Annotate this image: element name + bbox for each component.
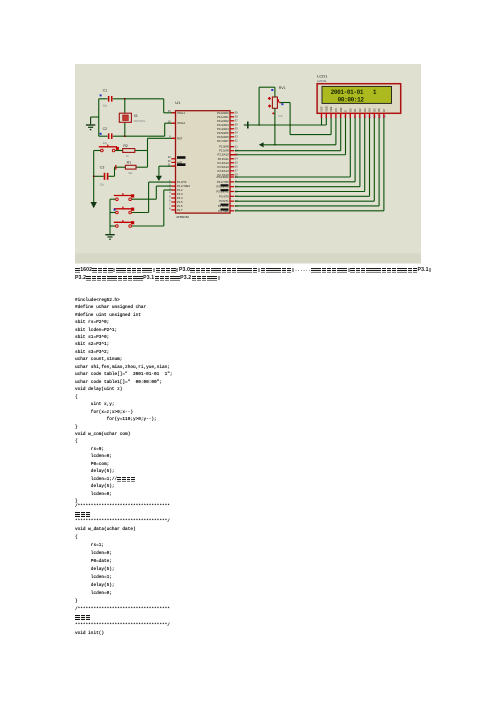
svg-text:D7: D7 xyxy=(382,108,386,112)
paragraph describing the clock, line 1 xyxy=(75,268,432,274)
U1 pin 3 P1.2 xyxy=(169,186,183,192)
comment 写数据 (blob) xyxy=(75,615,91,633)
svg-text:P3.4/T0: P3.4/T0 xyxy=(219,194,229,198)
U1 pin 18 XTAL2 xyxy=(168,120,186,126)
svg-text:E: E xyxy=(344,110,348,112)
LCD1 pin 8 D1 xyxy=(353,108,357,119)
U1 pin 16 P3.6/WR xyxy=(218,204,238,208)
U1 pin 15 P3.5/T1 xyxy=(219,199,238,203)
node: blue pin marker near key 2 xyxy=(114,209,116,211)
svg-text:D6: D6 xyxy=(377,108,381,112)
wire: RV1 top lead xyxy=(258,87,275,126)
svg-text:C3: C3 xyxy=(100,165,105,169)
U1 pin 14 P3.4/T0 xyxy=(219,194,238,198)
svg-text:P1.0/T2: P1.0/T2 xyxy=(177,180,187,184)
svg-text:X1: X1 xyxy=(134,114,138,118)
U1 pin 34 P0.5/AD5 xyxy=(217,131,238,135)
comment 给高脉冲 (blob) xyxy=(117,477,135,495)
U1 pin 30 ALE xyxy=(168,159,183,165)
svg-text:U1: U1 xyxy=(175,100,181,105)
wire: LCD D5 to U1 P3.5 xyxy=(235,118,374,201)
svg-text:00:00:12: 00:00:12 xyxy=(338,96,365,103)
LCD1 pin 5 RW xyxy=(339,107,343,119)
ground (keys) xyxy=(105,234,114,240)
U1 pin 25 P2.4/A12 xyxy=(218,161,239,165)
wire: ground rail to LCD VSS and VDD xyxy=(248,118,326,125)
U1 pin 12 P3.2/INT0 xyxy=(216,184,238,188)
IC U1 AT89C52 microcontroller body xyxy=(175,100,230,219)
svg-text:XTAL2: XTAL2 xyxy=(177,121,186,125)
crystal X1 xyxy=(119,113,146,123)
U1 pin 31 EA xyxy=(168,162,186,166)
svg-text:P2.6/A14: P2.6/A14 xyxy=(218,169,230,173)
C source code block B xyxy=(75,386,157,505)
svg-text:C2: C2 xyxy=(103,127,108,131)
U1 pin 10 P3.0/RXD xyxy=(217,175,239,179)
svg-text:RW: RW xyxy=(339,107,343,112)
ground (LCD VSS/VDD rail) xyxy=(244,122,248,129)
svg-text:D1: D1 xyxy=(353,108,357,112)
wire: C3 to R1 node xyxy=(108,165,125,176)
svg-text:R1: R1 xyxy=(127,160,132,164)
LCD1 pin 7 D0 xyxy=(348,108,352,119)
svg-text:P0.1/AD1: P0.1/AD1 xyxy=(217,115,229,119)
svg-text:P1.1/T2EX: P1.1/T2EX xyxy=(177,184,190,188)
svg-text:LM016L: LM016L xyxy=(317,79,327,83)
svg-text:D2: D2 xyxy=(358,108,362,112)
LCD1 pin 13 D6 xyxy=(377,108,381,119)
svg-text:22u: 22u xyxy=(100,183,105,187)
svg-text:AT89C52: AT89C52 xyxy=(176,215,189,219)
resistor R1 xyxy=(125,160,136,174)
wire: LCD D0 to U1 P3.0 xyxy=(235,118,350,177)
svg-text:2001-01-01 1: 2001-01-01 1 xyxy=(331,89,377,96)
wire: LCD D2 to U1 P3.2 xyxy=(235,118,360,187)
svg-text:P0.3/AD3: P0.3/AD3 xyxy=(217,123,229,127)
U1 pin 33 P0.6/AD6 xyxy=(217,135,238,139)
push button (reset) xyxy=(94,145,123,152)
svg-text:CRYSTAL: CRYSTAL xyxy=(134,119,146,123)
wire: RV1 wiper down across ground rail xyxy=(280,103,291,135)
svg-text:P2.2/A10: P2.2/A10 xyxy=(218,153,230,157)
svg-text:RV1: RV1 xyxy=(279,86,286,90)
U1 pin 21 P2.0/A8 xyxy=(219,145,238,149)
svg-text:P1.4: P1.4 xyxy=(177,196,183,200)
wire: EA net xyxy=(159,166,176,176)
C source code block C xyxy=(75,503,170,638)
svg-text:VSS: VSS xyxy=(320,106,324,111)
U1 pin 23 P2.2/A10 xyxy=(218,153,239,157)
U1 pin 17 P3.7/RD xyxy=(218,208,238,212)
wire: E net to P2.2 xyxy=(230,118,346,155)
potentiometer RV1 xyxy=(268,86,286,118)
svg-text:D3: D3 xyxy=(363,108,367,112)
U1 pin 13 P3.3/INT1 xyxy=(216,189,238,193)
U1 pin 35 P0.4/AD4 xyxy=(217,127,238,131)
svg-text:P1.6: P1.6 xyxy=(177,204,183,208)
svg-text:P1.2: P1.2 xyxy=(177,188,183,192)
U1 pin 5 P1.4 xyxy=(169,194,183,200)
LCD1 pin 6 E xyxy=(344,110,348,119)
U1 pin 4 P1.3 xyxy=(169,190,183,196)
svg-text:P2.1/A9: P2.1/A9 xyxy=(219,149,229,153)
U1 pin 22 P2.1/A9 xyxy=(219,149,238,153)
svg-text:22p: 22p xyxy=(103,141,108,145)
push button key 3 xyxy=(110,220,134,227)
wire: C1 net / XTAL1 net xyxy=(117,98,176,113)
svg-text:P0.6/AD6: P0.6/AD6 xyxy=(217,135,229,139)
svg-text:P0.4/AD4: P0.4/AD4 xyxy=(217,127,229,131)
wire: VEE net (to RV1 wiper) xyxy=(290,118,331,135)
LCD1 pin 14 D7 xyxy=(382,108,386,119)
wire: RST net (R2/R1 right leads to RST pin) xyxy=(135,138,176,167)
svg-text:P2.5/A13: P2.5/A13 xyxy=(218,165,230,169)
U1 pin 1 P1.0/T2 xyxy=(169,179,187,185)
wire: left supply rail down from button row through C3 xyxy=(93,151,95,203)
svg-text:D4: D4 xyxy=(368,108,372,112)
U1 pin 7 P1.6 xyxy=(169,202,183,208)
LCD1 pin 12 D5 xyxy=(372,108,376,119)
svg-text:10k: 10k xyxy=(128,171,133,175)
LCD1 pin 3 VEE xyxy=(329,106,333,118)
LCD1 pin 11 D4 xyxy=(368,108,372,119)
comment 写指令 (blob) xyxy=(75,512,91,530)
svg-text:P0.5/AD5: P0.5/AD5 xyxy=(217,131,229,135)
LCD1 pin 9 D2 xyxy=(358,108,362,119)
wire: LCD D4 to U1 P3.4 xyxy=(235,118,370,196)
capacitor C3 xyxy=(94,165,109,186)
svg-text:R2: R2 xyxy=(123,144,128,148)
svg-text:C1: C1 xyxy=(103,89,108,93)
svg-text:P3.0/RXD: P3.0/RXD xyxy=(217,175,229,179)
U1 pin 37 P0.2/AD2 xyxy=(217,119,238,123)
svg-text:P2.3/A11: P2.3/A11 xyxy=(218,157,229,161)
capacitor C2 xyxy=(99,127,117,145)
push button key 1 xyxy=(110,193,134,200)
svg-text:RS: RS xyxy=(334,108,338,112)
svg-text:RST: RST xyxy=(177,136,183,140)
U1 pin 26 P2.5/A13 xyxy=(218,165,239,169)
svg-text:D5: D5 xyxy=(372,108,376,112)
ground (crystal section) xyxy=(86,117,95,130)
wire: P1.1 net to key 1 xyxy=(131,186,176,199)
U1 pin 39 P0.0/AD0 xyxy=(217,111,238,115)
U1 pin 8 P1.7 xyxy=(169,206,183,212)
C source code block A xyxy=(75,297,173,386)
svg-text:P1.3: P1.3 xyxy=(177,192,183,196)
LCD1 pin 2 VDD xyxy=(324,106,328,118)
svg-text:P0.0/AD0: P0.0/AD0 xyxy=(217,111,229,115)
svg-text:P3.5/T1: P3.5/T1 xyxy=(219,199,229,203)
wire: RW net to P2.1 xyxy=(235,118,341,151)
U1 pin 36 P0.3/AD3 xyxy=(217,123,238,127)
svg-text:VDD: VDD xyxy=(324,106,328,112)
svg-text:P0.2/AD2: P0.2/AD2 xyxy=(217,119,229,123)
svg-text:LCD1: LCD1 xyxy=(317,74,328,79)
svg-text:P1.7: P1.7 xyxy=(177,208,183,212)
U1 pin 19 XTAL1 xyxy=(168,109,186,115)
wire: LCD D7 to U1 P3.7 xyxy=(235,118,384,211)
ground arrow (below C3 rail) xyxy=(91,202,97,208)
LCD1 pin 10 D3 xyxy=(363,108,367,119)
wire: C2 net / XTAL2 net xyxy=(117,122,176,137)
wire: RV1 bottom lead to RS net xyxy=(274,108,276,145)
U1 pin 27 P2.6/A14 xyxy=(218,169,239,173)
U1 pin 24 P2.3/A11 xyxy=(218,157,239,161)
svg-text:XTAL1: XTAL1 xyxy=(177,111,186,115)
wire: RS net with ground arrow terminal xyxy=(259,118,336,147)
wire: P1.2 net to key 3 xyxy=(131,190,176,226)
svg-text:22p: 22p xyxy=(103,103,108,107)
push button key 2 xyxy=(110,207,134,214)
svg-text:P2.0/A8: P2.0/A8 xyxy=(219,145,229,149)
svg-text:P2.4/A12: P2.4/A12 xyxy=(218,161,230,165)
wire: left rail joining C1 and C2 xyxy=(91,99,99,136)
wire: LCD D1 to U1 P3.1 xyxy=(235,118,355,182)
wire: P1.0 net to key 2 xyxy=(131,182,176,212)
wire: LCD D3 to U1 P3.3 xyxy=(235,118,365,191)
svg-text:D0: D0 xyxy=(348,108,352,112)
U1 pin 32 P0.7/AD7 xyxy=(217,139,238,143)
U1 pin 2 P1.1/T2EX xyxy=(169,183,190,189)
LCD1 pin 1 VSS xyxy=(320,106,324,118)
LCD1 LM016L module xyxy=(317,74,401,114)
wire: LCD D6 to U1 P3.6 xyxy=(235,118,379,206)
resistor R2 xyxy=(123,144,135,158)
paragraph describing the clock, line 2 xyxy=(75,276,220,282)
U1 pin 11 P3.1/TXD xyxy=(217,180,238,184)
U1 pin 29 PSEN xyxy=(168,155,186,159)
svg-text:P0.7/AD7: P0.7/AD7 xyxy=(217,139,229,143)
U1 pin 28 P2.7/A15 xyxy=(218,173,239,177)
U1 pin 6 P1.5 xyxy=(169,198,183,204)
LCD1 pin 4 RS xyxy=(334,108,338,119)
ground arrow (EA) xyxy=(156,176,162,181)
svg-text:P3.1/TXD: P3.1/TXD xyxy=(217,180,229,184)
schematic background (Proteus editing area) xyxy=(75,64,421,264)
svg-text:P1.5: P1.5 xyxy=(177,200,183,204)
svg-text:VEE: VEE xyxy=(329,106,333,111)
U1 pin 9 RST xyxy=(169,135,183,141)
U1 pin 38 P0.1/AD1 xyxy=(217,115,238,119)
wire: key common rail to ground xyxy=(109,199,111,234)
capacitor C1 xyxy=(99,89,117,108)
